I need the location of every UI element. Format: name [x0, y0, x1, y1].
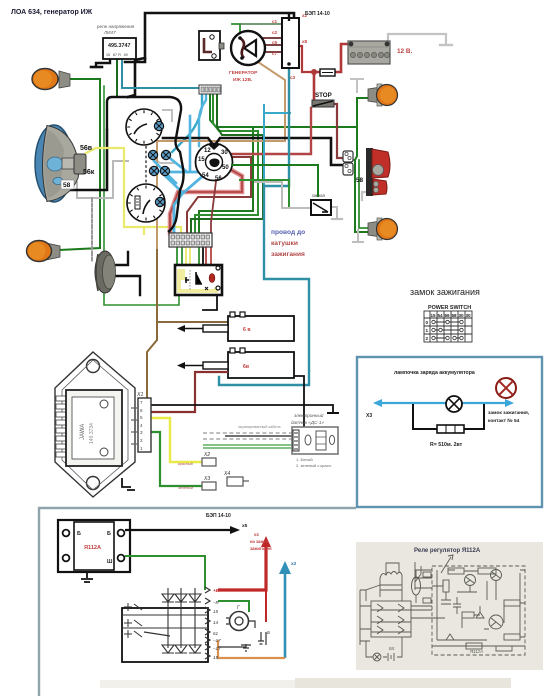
- svg-text:1: 1: [140, 446, 143, 451]
- svg-text:58: 58: [63, 182, 71, 189]
- wire maroon strip to switchbox: [206, 247, 211, 265]
- svg-text:14б.3734: 14б.3734: [89, 423, 95, 444]
- svg-text:Х3: Х3: [203, 476, 210, 482]
- turn signal lamp bottom-left: [27, 241, 61, 262]
- wire maroon ignition staircase to strip: [187, 157, 251, 233]
- wire teal below top connector curling to lamps: [172, 93, 202, 152]
- sensor DS-1 box: [291, 412, 338, 468]
- regulator 495.3747: [103, 38, 136, 59]
- wire maroon stop to tail connector: [334, 104, 343, 158]
- wire black coil2 to sensor: [292, 376, 304, 430]
- svg-text:0: 0: [426, 320, 429, 325]
- svg-text:экранированный кабель: экранированный кабель: [238, 425, 281, 429]
- svg-text:6в: 6в: [243, 364, 249, 370]
- ground black mid: [327, 412, 339, 414]
- svg-text:Я112А: Я112А: [469, 649, 483, 654]
- turn signal right top: [368, 84, 398, 106]
- wire green long run to right lamps: [253, 98, 370, 127]
- wire green generator drop to switch area: [232, 24, 240, 38]
- svg-text:красный: красный: [178, 462, 193, 466]
- ground gray near lamp: [353, 230, 363, 242]
- wire green staircase 3: [191, 93, 263, 233]
- svg-text:замок зажигания: замок зажигания: [410, 287, 480, 297]
- scan transformer: [380, 572, 402, 598]
- SECTION:COMPONENTS: [11, 9, 412, 295]
- speedo cable dashed: [145, 146, 147, 184]
- wire yellow X1 down to X2: [151, 418, 202, 462]
- relay Ya112A box: [58, 520, 130, 582]
- scan battery lamp: [373, 653, 381, 661]
- wire green tail and bottom turn signal: [355, 127, 370, 232]
- wire teal main run connector to coils: [219, 68, 309, 385]
- SECTION:MID: [55, 312, 339, 497]
- wire green turn-signal left top: [58, 79, 100, 250]
- connector X2: [178, 452, 216, 466]
- svg-text:4: 4: [140, 423, 143, 428]
- tail light assembly: [343, 148, 390, 196]
- scanned schematic background: [356, 542, 543, 670]
- svg-text:R= 510м. 2вт: R= 510м. 2вт: [430, 442, 463, 448]
- wire green rectifier to generator: [218, 601, 249, 612]
- svg-text:катушки: катушки: [271, 240, 298, 247]
- wire light-blue 54 diagonal to strip: [174, 175, 204, 233]
- SECTION:WIRES: [58, 13, 452, 385]
- power switch table: [424, 305, 472, 342]
- junction dot red: [311, 69, 317, 75]
- blue arrow x2: [279, 561, 297, 658]
- svg-text:Б5: Б5: [389, 646, 395, 651]
- wire green staircase 2: [195, 93, 258, 233]
- svg-text:58: 58: [452, 313, 458, 318]
- SECTION:RIGHTPANEL: [357, 287, 542, 507]
- text provod do katushki: [271, 229, 305, 258]
- svg-text:Б: Б: [107, 531, 111, 537]
- svg-text:54: 54: [202, 173, 209, 179]
- wire brown coil feed vertical: [147, 322, 157, 398]
- speedometer: [127, 184, 165, 222]
- wire dark-red X1 to coil2: [151, 372, 228, 412]
- svg-text:ЛОА 634, генератор ИЖ: ЛОА 634, генератор ИЖ: [11, 9, 93, 16]
- wire gray signal relay left: [255, 182, 311, 208]
- svg-text:Реле регулятор Я112А: Реле регулятор Я112А: [414, 548, 481, 554]
- svg-text:БЭП 14-10: БЭП 14-10: [305, 11, 330, 17]
- signal relay: [311, 193, 331, 215]
- top center connector block: [199, 85, 221, 94]
- wire red long run to stop switch: [229, 108, 311, 154]
- svg-text:15 67 Я 49: 15 67 Я 49: [106, 53, 128, 57]
- svg-text:15: 15: [198, 157, 205, 163]
- wire cyan stub right: [264, 105, 290, 186]
- generator G circle: [226, 605, 255, 631]
- svg-text:контакт № 54: контакт № 54: [488, 418, 520, 424]
- battery 12V: [348, 41, 412, 64]
- svg-text:Б: Б: [267, 630, 270, 635]
- connector right of generator: [272, 13, 308, 80]
- wire maroon generator to connector pins: [252, 38, 282, 52]
- svg-text:лампочка заряда аккумулятора: лампочка заряда аккумулятора: [394, 370, 475, 376]
- svg-text:JAWA: JAWA: [80, 424, 86, 440]
- svg-text:с3: с3: [290, 75, 296, 80]
- svg-text:провод до: провод до: [271, 229, 305, 236]
- svg-text:на замок: на замок: [250, 539, 269, 544]
- horn: [95, 251, 116, 293]
- wire dark-green from regulator pin: [116, 60, 118, 97]
- stop switch: [312, 92, 334, 107]
- svg-text:5: 5: [140, 415, 143, 420]
- wire black horn leads: [114, 252, 140, 295]
- svg-text:30: 30: [221, 150, 228, 156]
- wire green generator top: [240, 23, 283, 25]
- svg-text:Б: Б: [77, 531, 81, 537]
- wire red junction to connector x8: [299, 46, 314, 72]
- svg-text:30: 30: [466, 313, 472, 318]
- scan dashed enclosure: [432, 566, 525, 655]
- scan bridge box: [371, 601, 411, 637]
- wire brown strip to coil: [157, 250, 228, 322]
- scan internals: [448, 568, 464, 574]
- svg-text:2: 2: [426, 336, 429, 341]
- svg-text:зажигания: зажигания: [271, 251, 305, 258]
- svg-text:2: 2: [140, 438, 143, 443]
- wire cyan lamp line with arrows: [382, 402, 508, 404]
- ignition switch: [196, 144, 233, 183]
- svg-text:3: 3: [140, 430, 143, 435]
- svg-text:–17: –17: [212, 638, 221, 643]
- handlebar switch box: [175, 265, 222, 295]
- svg-text:Ш: Ш: [107, 559, 113, 565]
- svg-text:БЭП 14-10: БЭП 14-10: [206, 513, 231, 519]
- arrow black to x5: [125, 529, 231, 531]
- connector X3: [178, 476, 216, 490]
- svg-text:14: 14: [213, 620, 219, 625]
- svg-text:56: 56: [215, 176, 222, 182]
- svg-text:50: 50: [222, 165, 229, 171]
- svg-text:+Б: +Б: [213, 588, 220, 593]
- svg-text:х2: х2: [291, 561, 297, 567]
- svg-text:Х1: Х1: [136, 392, 143, 398]
- svg-text:56: 56: [445, 313, 451, 318]
- svg-text:датчик «ДС-1»: датчик «ДС-1»: [291, 420, 324, 425]
- svg-text:с7: с7: [272, 51, 278, 56]
- svg-text:зеленый: зеленый: [178, 486, 193, 490]
- svg-text:Х3: Х3: [366, 413, 372, 419]
- svg-text:56к: 56к: [83, 169, 95, 176]
- connector X4: [223, 471, 249, 486]
- wire green stub right of switch lower: [240, 180, 289, 206]
- svg-text:ИЖ 12В.: ИЖ 12В.: [233, 77, 252, 83]
- wire green X1 down to X3: [151, 432, 202, 486]
- red arrow to ignition lock: [218, 532, 272, 622]
- ground battery gray: [440, 44, 452, 46]
- svg-text:Х4: Х4: [223, 471, 230, 477]
- svg-text:15: 15: [213, 655, 219, 660]
- red indicator circle: [496, 378, 516, 398]
- wire green Sh to rectifier: [125, 556, 205, 590]
- ignition coil 2: [177, 348, 294, 378]
- svg-text:6: 6: [140, 408, 143, 413]
- connector X1: [131, 392, 151, 452]
- svg-text:с1: с1: [272, 19, 278, 24]
- connector strip center: [169, 233, 212, 247]
- svg-text:58: 58: [356, 177, 364, 184]
- headlight: [35, 125, 95, 202]
- svg-text:х8: х8: [302, 39, 308, 44]
- svg-text:Х2: Х2: [203, 452, 210, 458]
- rectifier output chevrons: [205, 587, 210, 659]
- ignition coil 1: [177, 312, 294, 341]
- svg-text:6 в: 6 в: [243, 327, 251, 333]
- svg-text:ЛИ47: ЛИ47: [103, 30, 116, 35]
- resistor R510: [437, 425, 464, 433]
- wire gray tail light ground: [362, 192, 367, 200]
- wire yellow strip to switchbox: [186, 247, 190, 265]
- wire tan generator to instruments: [157, 62, 285, 250]
- wire black switchbox down: [203, 247, 217, 310]
- svg-text:15: 15: [431, 313, 437, 318]
- orange wire rectifier to x2: [218, 640, 285, 658]
- svg-text:Я112А: Я112А: [84, 545, 101, 551]
- wire light-blue instrument vertical: [189, 116, 192, 170]
- svg-text:12: 12: [204, 148, 211, 154]
- svg-text:1: 1: [426, 328, 429, 333]
- instrument housing outline: [127, 97, 184, 232]
- brake switch: [199, 31, 224, 60]
- wire pink-red thick staircase: [170, 167, 242, 233]
- wire gray battery to ground: [388, 34, 446, 44]
- generator IZh: [229, 31, 265, 83]
- blue panel box: [357, 357, 542, 507]
- bottom faint band: [295, 678, 511, 688]
- wire yellow to connector strip: [144, 227, 181, 233]
- wire gray headlight parking lamp: [60, 161, 128, 198]
- wire black headlight 58 to housing: [66, 130, 107, 190]
- wire green stub right of switch upper: [232, 165, 318, 196]
- SECTION:BOTTOM: [39, 508, 511, 696]
- scan wires left: [366, 585, 445, 618]
- wire black X1 run to ground: [151, 405, 333, 412]
- svg-text:495.3747: 495.3747: [108, 43, 130, 49]
- tachometer: [126, 109, 164, 145]
- wire red fuse to junction to stop: [314, 72, 320, 101]
- wire green into tail connector: [352, 159, 355, 161]
- wire gray dashed to switch: [91, 198, 93, 262]
- svg-text:61: 61: [213, 631, 219, 636]
- ground gray top turn signal: [351, 79, 363, 92]
- wire green staircase 1: [199, 93, 253, 233]
- wire gray bracket near tach: [150, 110, 176, 163]
- frame bottom-left section: [39, 508, 356, 696]
- svg-text:STOP: STOP: [315, 92, 332, 99]
- wire light-blue lamp diagonals: [154, 155, 187, 192]
- capacitor and ground cluster: [218, 630, 270, 651]
- wire green strip to switchbox: [177, 247, 199, 265]
- SECTION:SCAN: [356, 542, 543, 670]
- svg-text:POWER SWITCH: POWER SWITCH: [428, 305, 471, 311]
- turn signal right bottom: [368, 218, 398, 240]
- scan input leads: [415, 570, 432, 588]
- svg-text:15: 15: [213, 609, 219, 614]
- wire black regulator ground lead: [96, 60, 110, 66]
- resistor loop black: [413, 404, 484, 429]
- svg-text:30: 30: [459, 313, 465, 318]
- wire green top turn signal drop: [356, 98, 358, 127]
- indicator lamps cluster: [148, 150, 170, 175]
- wire teal from regulator to top connector: [122, 60, 199, 88]
- svg-text:реле напряжения: реле напряжения: [97, 24, 135, 29]
- svg-text:12 В.: 12 В.: [397, 48, 412, 55]
- svg-text:7: 7: [140, 400, 143, 405]
- rectifier unit box: [122, 588, 208, 662]
- wire red battery to fuse: [335, 44, 348, 72]
- svg-text:54: 54: [438, 313, 444, 318]
- svg-text:электронный: электронный: [294, 412, 324, 418]
- svg-text:56в: 56в: [80, 145, 93, 152]
- charge lamp symbol: [446, 396, 462, 412]
- wire light-blue lamps to switch 54: [167, 171, 204, 174]
- wire black top loop instrument-to-connector: [125, 13, 294, 62]
- svg-text:х4: х4: [254, 532, 259, 537]
- wire black long horizontal with notch: [163, 138, 343, 165]
- svg-text:1. Белый: 1. Белый: [296, 457, 313, 462]
- svg-text:с2: с2: [272, 30, 278, 35]
- svg-text:зажигания: зажигания: [250, 546, 272, 551]
- fuse: [320, 69, 335, 76]
- svg-text:2. зеленый с красн.: 2. зеленый с красн.: [296, 463, 332, 468]
- ground regulator: [91, 66, 102, 69]
- svg-text:замок зажигания,: замок зажигания,: [488, 411, 530, 416]
- svg-text:ГЕНЕРАТОР: ГЕНЕРАТОР: [229, 70, 258, 76]
- wire gray signal relay right ground: [330, 207, 337, 218]
- wire maroon switch 56 to strip: [211, 181, 216, 233]
- svg-text:х5: х5: [242, 523, 248, 529]
- wire black loop left leg: [128, 58, 145, 97]
- wire green second vertical left: [104, 86, 179, 305]
- wire yellow headlight 56: [86, 148, 144, 234]
- JAWA voltage regulator plate: [55, 352, 135, 497]
- svg-text:с5: с5: [272, 40, 278, 45]
- turn signal lamp top-left: [32, 69, 70, 90]
- wire light-blue connector to ignition 15: [199, 93, 206, 146]
- shielded cable dashed: [203, 425, 292, 448]
